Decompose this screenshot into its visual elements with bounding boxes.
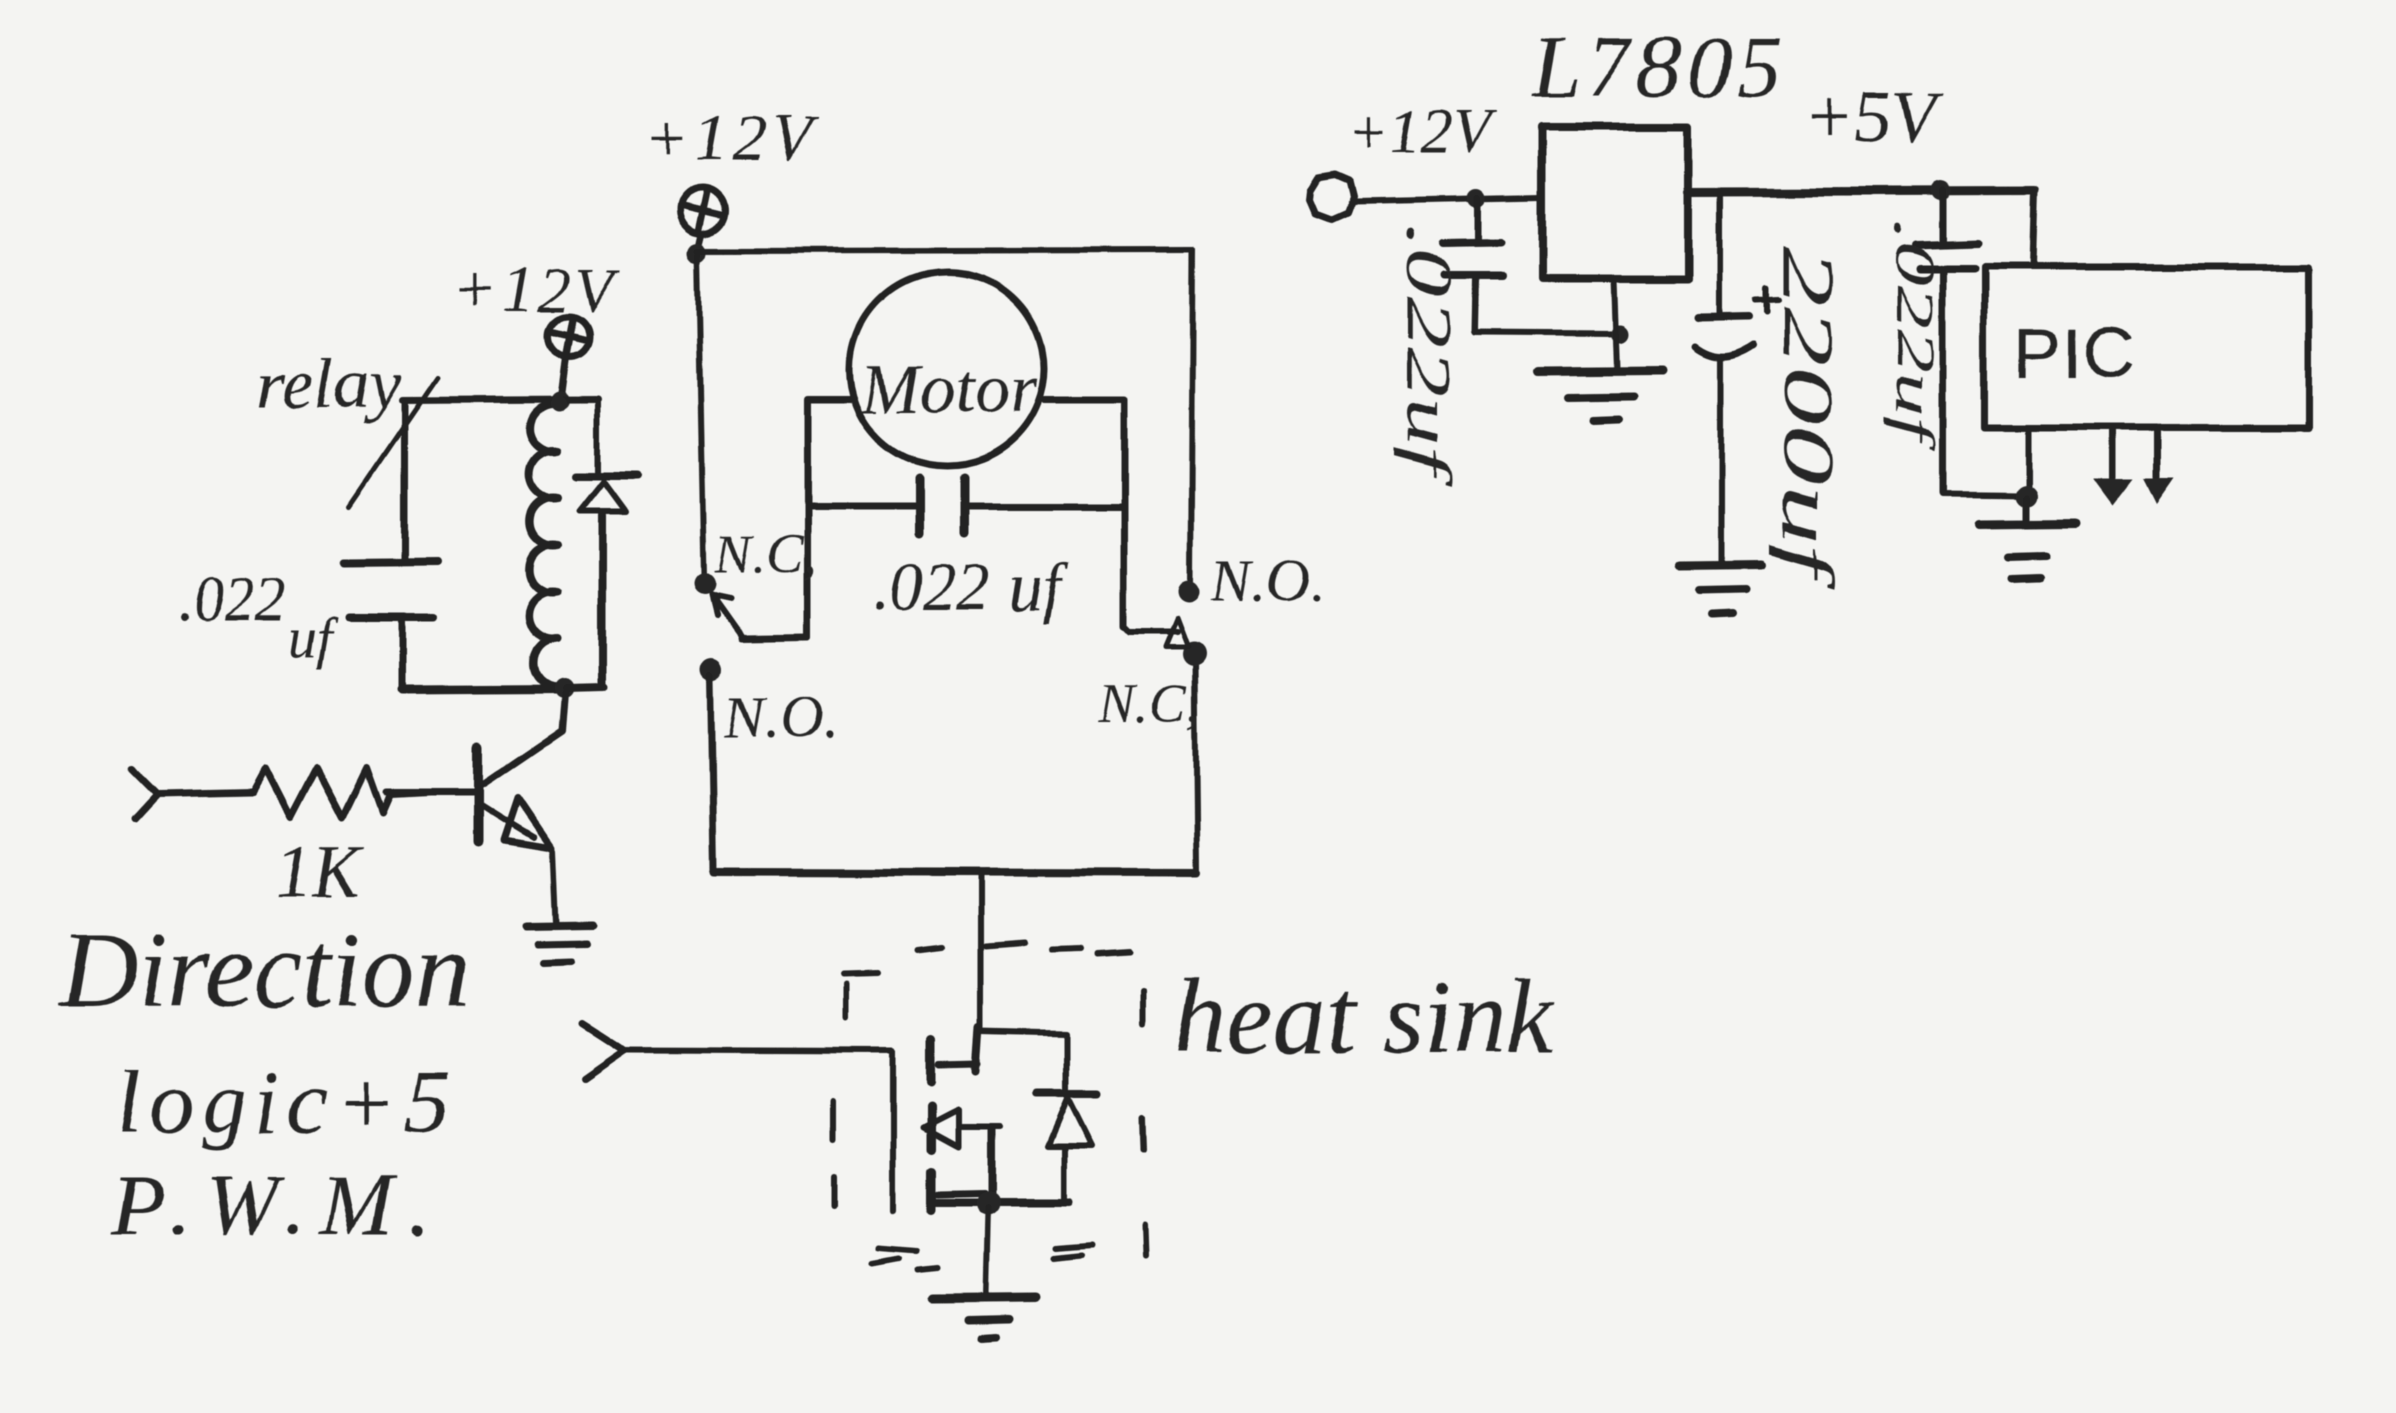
wire N.O. left down [711,676,714,871]
contact N.O. right dot [1178,580,1200,602]
transistor Q1 emitter [482,806,534,838]
input arrow (Direction) [133,769,158,819]
transistor Q2 channel middle bar [927,1106,936,1150]
wire base lead [387,789,476,796]
node junction dot (PIC ground) [2016,485,2038,507]
contact N.C. left lever with arrowhead [712,595,741,636]
wire +5V down to PIC [2033,191,2035,267]
wire drain drop from bottom rail [977,874,983,1032]
diode D3 anode lead [1062,1148,1068,1202]
contact lever right with arrowhead [1124,626,1177,632]
wire input to resistor [158,792,253,794]
ground (PIC) [1978,524,2076,525]
power symbol circled-plus (motor supply) [679,188,725,234]
capacitor C2 .022uf across motor [808,503,919,510]
contact N.O. left dot [701,659,723,681]
wire gate lead [625,1050,893,1211]
svg-text:L7805: L7805 [1530,19,1787,116]
wire left vertical to N.C. [698,253,704,577]
diode D3 cathode bar [1037,1090,1098,1098]
wire motor top rail [697,250,1193,251]
wire relay bottom rail [402,689,566,690]
wire right N.C. down [1195,660,1197,871]
diode D1 (flyback) [595,401,601,474]
wire bottom rail of contacts [714,872,1197,873]
PIC output arrow 2 [2154,430,2161,477]
wire regulator ground pin [1614,279,1617,369]
wire left vertical upper [401,400,408,561]
wire motor left lead [808,399,851,637]
wire source rail [934,1198,1070,1206]
svg-text:+12V: +12V [452,254,622,327]
svg-text:P.W.M.: P.W.M. [111,1157,443,1254]
wire motor right lead [1044,401,1124,626]
svg-text:PIC: PIC [2014,314,2134,394]
diode D3 (body diode) top wire [978,1032,1066,1090]
PIC output arrow 1 [2110,430,2117,478]
node junction dot (C3 tap) [1468,189,1486,207]
input connector circle [1309,174,1353,219]
node source junction dot [976,1191,1000,1215]
ground (emitter) [526,926,593,927]
transistor Q2 MOSFET channel top bar [927,1040,936,1082]
svg-text:Direction: Direction [58,911,470,1030]
svg-text:Motor: Motor [861,351,1038,428]
ground (source) [932,1297,1037,1298]
transistor Q2 channel bottom bar [927,1172,936,1210]
svg-text:2200uf: 2200uf [1768,246,1848,591]
node junction dot top of relay [551,391,569,409]
svg-text:.022uf: .022uf [1394,224,1465,487]
wire C4 to ground [1718,357,1724,562]
input arrow (P.W.M.) [583,1023,625,1078]
contact N.C. left dot [694,573,716,595]
capacitor C4 2200uf lead [1716,193,1722,316]
svg-text:.022uf: .022uf [1883,220,1945,452]
capacitor C3 .022uf input [1475,198,1482,241]
svg-text:+12V: +12V [645,102,818,175]
IC U2 PIC box [1984,267,2309,428]
svg-text:.022 uf: .022 uf [872,549,1069,625]
motor M1 circle [850,272,1044,466]
capacitor C4 plates [1698,317,1749,318]
svg-text:1K: 1K [274,831,364,913]
node junction dot [687,243,707,263]
svg-text:N.O.: N.O. [1211,547,1325,613]
wire +5V rail [1688,191,2035,192]
svg-text:heat sink: heat sink [1173,958,1555,1075]
wire input to regulator [1353,197,1542,201]
resistor R1 1K [253,767,391,817]
capacitor C4 plus sign [1756,288,1779,312]
svg-text:logic+5: logic+5 [116,1053,458,1152]
wire resistor to base [391,792,430,794]
node junction dot (ground pin) [1611,324,1629,342]
capacitor C5 .022uf output [1940,191,1947,242]
node coil bottom junction dot [554,678,574,698]
regulator U1 L7805 box [1542,126,1688,279]
transistor Q2 body arrow [923,1110,958,1147]
heat sink dashed boundary [833,942,1146,1270]
leader slash from relay label [349,377,437,506]
relay coil L1 [529,404,558,687]
svg-text:N.O.: N.O. [723,685,837,751]
wire source to ground [986,1207,988,1296]
contact N.C. right dot [1182,642,1206,666]
svg-text:uf: uf [288,607,339,669]
ground (regulator) [1537,371,1662,372]
ground (C4) [1680,565,1760,566]
wire left vertical lower [399,617,406,690]
wire collector lead [484,693,565,784]
transistor Q2 source connector [958,1124,1000,1130]
transistor Q1 base bar [473,748,483,842]
node coil top dot [550,395,566,411]
svg-text:+12V: +12V [1348,98,1496,166]
svg-text:+5V: +5V [1804,77,1944,159]
diode D3 triangle [1048,1098,1092,1146]
power symbol circled-plus (relay supply) [549,317,589,357]
svg-text:.022: .022 [178,566,287,634]
transistor Q2 drain connector [975,1028,978,1071]
capacitor C1 .022uf plates [344,562,437,563]
wire to ground [2024,498,2031,521]
wire relay top rail [402,399,598,400]
svg-text:N.C,: N.C, [714,523,818,585]
wire stub below circled-plus [698,235,701,247]
svg-text:relay: relay [256,344,401,424]
svg-text:N.C,: N.C, [1097,673,1201,735]
wire from +12V to relay top rail [561,357,566,396]
wire PIC ground pin [2026,428,2032,493]
wire right vertical to N.O. [1191,250,1193,583]
node junction dot (C5 tap) [1931,181,1951,201]
